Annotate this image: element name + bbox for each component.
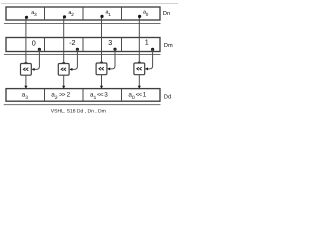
junction dot shift -2 [76, 48, 79, 51]
wire Dm -2 to shifter U1 [72, 49, 78, 69]
svg-text:0: 0 [132, 95, 135, 101]
register Dm box [6, 38, 160, 52]
register Dn shadow [4, 23, 161, 25]
horizontal rule (page artifact) [1, 3, 178, 5]
svg-text:3: 3 [104, 92, 108, 99]
svg-text:1: 1 [108, 12, 111, 17]
value 1 [145, 38, 149, 47]
svg-text:Dn: Dn [163, 11, 170, 17]
register Dm shadow [4, 54, 161, 56]
shifter U1 [58, 64, 69, 76]
wire shifter U1 to Dd [63, 75, 65, 87]
svg-text:2: 2 [67, 92, 71, 99]
svg-text:2: 2 [55, 95, 58, 101]
result a3 [22, 92, 29, 101]
result a2 >> 2 [51, 92, 70, 101]
svg-text:3: 3 [25, 95, 28, 101]
arrowhead into Dd lane 1 [62, 86, 65, 89]
wire Dn a0 to shifter [138, 17, 140, 63]
wire shifter U2 to Dd [101, 75, 103, 88]
value 0 [32, 38, 36, 47]
junction dot a0 [138, 15, 141, 18]
junction dot a2 [63, 15, 66, 18]
wire shifter U3 to Dd [138, 75, 140, 88]
result a1 << 3 [90, 92, 108, 101]
register Dd box [6, 89, 160, 102]
value 3 [108, 38, 112, 47]
label a0 [143, 10, 149, 17]
svg-text:1: 1 [145, 38, 149, 47]
register Dd shadow [4, 104, 161, 106]
wire Dm 3 to shifter U2 [109, 49, 115, 69]
arrowhead into shifter U0 right [32, 68, 35, 71]
wire Dn a1 to shifter [101, 17, 103, 63]
shifter U2 [96, 63, 107, 75]
junction dot a1 [100, 15, 103, 18]
wire Dn a2 to shifter [63, 17, 65, 63]
shifter U0 [21, 64, 32, 76]
result a0 << 1 [128, 92, 146, 101]
net label Dm [164, 43, 173, 49]
label a3 [31, 10, 37, 17]
svg-text:3: 3 [108, 38, 112, 47]
caption VSHL.S16 [51, 109, 106, 115]
arrowhead into shifter U3 right [145, 67, 148, 70]
wire Dm 1 to shifter U3 [147, 49, 152, 69]
junction dot shift 3 [113, 48, 116, 51]
label a2 [68, 10, 74, 17]
arrowhead into shifter U2 top [100, 62, 103, 65]
register Dn box [6, 7, 160, 20]
svg-text:3: 3 [34, 12, 37, 17]
wire shifter U0 to Dd [25, 75, 27, 87]
svg-text:Dd: Dd [164, 94, 171, 101]
arrowhead into shifter U3 top [138, 62, 141, 65]
wire Dm 0 to shifter U0 [34, 49, 40, 69]
arrowhead into shifter U1 top [62, 62, 65, 65]
wire Dn a3 to shifter [25, 17, 27, 63]
svg-text:0: 0 [146, 12, 149, 17]
arrowhead into shifter U1 right [69, 68, 72, 71]
arrowhead into Dd lane 0 [24, 86, 27, 89]
svg-text:1: 1 [143, 92, 147, 99]
junction dot shift 1 [151, 48, 154, 51]
svg-text:0: 0 [32, 38, 36, 47]
net label Dd [164, 94, 171, 101]
arrowhead into Dd lane 2 [100, 86, 103, 89]
shifter U3 [134, 63, 145, 75]
arrowhead into shifter U0 top [24, 62, 27, 65]
arrowhead into Dd lane 3 [138, 86, 141, 89]
svg-text:Dm: Dm [164, 43, 173, 49]
svg-text:VSHL. S16 Dd , Dn , Dm: VSHL. S16 Dd , Dn , Dm [51, 109, 106, 115]
net label Dn [163, 11, 170, 17]
svg-text:-2: -2 [69, 38, 75, 47]
junction dot shift 0 [38, 48, 41, 51]
junction dot a3 [25, 16, 28, 19]
arrowhead into shifter U2 right [107, 67, 110, 70]
svg-text:2: 2 [71, 12, 74, 17]
value -2 [69, 38, 75, 47]
label a1 [106, 10, 112, 17]
